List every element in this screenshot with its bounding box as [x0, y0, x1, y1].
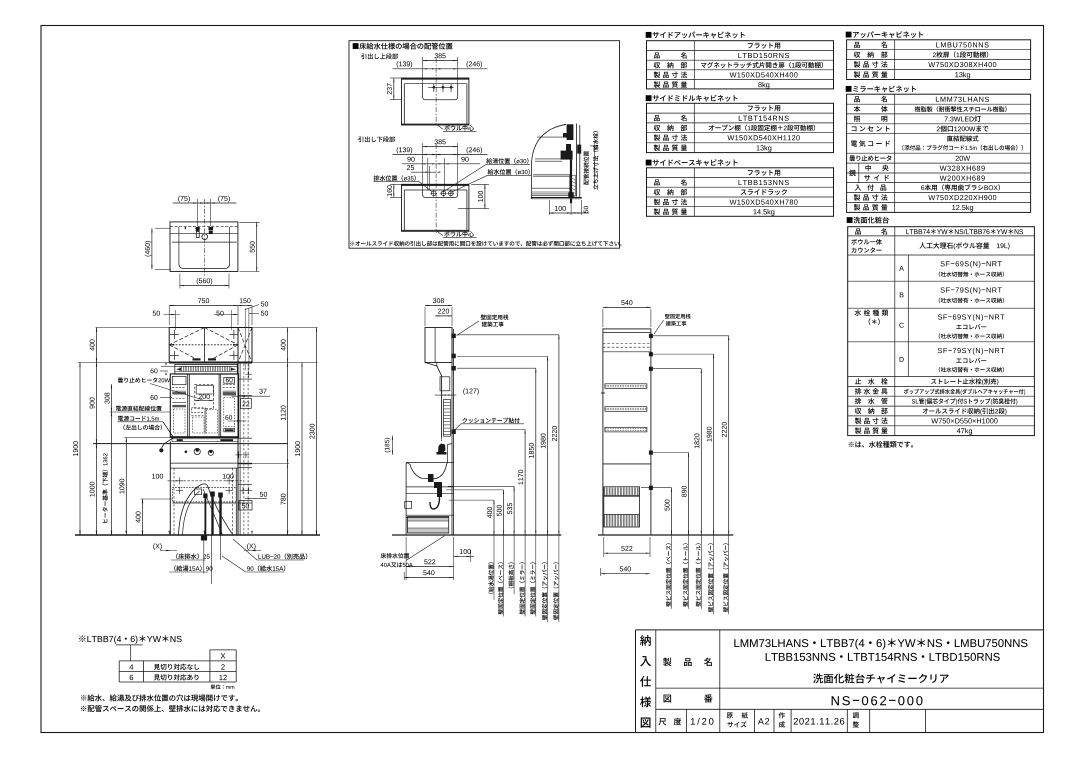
faucet A	[899, 266, 904, 271]
upper cabinet cross marks	[170, 333, 179, 335]
faucet black shape	[567, 124, 574, 140]
mirror left door shelves	[172, 376, 186, 384]
label hot 15A 90	[174, 565, 212, 571]
dim 385 lower	[422, 143, 424, 190]
dim 60 light band	[151, 368, 158, 373]
bowl outline	[423, 190, 458, 198]
vanity row: counter	[851, 239, 882, 245]
vanity table	[847, 217, 889, 224]
dim 400 left	[96, 328, 98, 363]
faucet sub column	[907, 255, 909, 377]
mirror cabinet table	[846, 86, 916, 93]
centerline upper	[435, 58, 437, 127]
mirror row: heater	[849, 155, 855, 161]
plan bowl outline	[179, 227, 230, 269]
dim 2300 right	[316, 328, 318, 536]
plan small tick	[184, 227, 186, 229]
faucet cross marks	[428, 86, 453, 88]
dim 22 boxed	[241, 399, 252, 409]
left extension lines	[96, 327, 170, 329]
row: flat type	[748, 105, 780, 111]
box bottom note	[350, 241, 621, 246]
upper cabinet shelf dashed	[169, 344, 238, 346]
upper cabinet door swing dashes	[169, 328, 204, 345]
label lower drawer	[358, 136, 395, 142]
side trap	[434, 482, 442, 488]
mirror center heater zone	[195, 385, 214, 409]
dim 60 right door	[225, 415, 232, 420]
mirror row: outlet	[852, 126, 857, 131]
plan centerline	[203, 199, 205, 276]
dim 50 right lower	[260, 492, 267, 497]
right view outline	[603, 329, 651, 535]
tower front below	[239, 363, 241, 536]
dashed line 100 dim row	[168, 480, 244, 482]
dim (139)/(246) upper	[393, 68, 488, 70]
box title	[353, 43, 453, 50]
leader to table	[130, 645, 132, 661]
mirror row: light	[854, 116, 860, 122]
row: product size	[654, 134, 660, 140]
side vertical dims	[493, 500, 495, 535]
plan dim (75)(75)	[196, 199, 198, 226]
underline 4-6	[116, 644, 143, 646]
product name line1	[734, 638, 1027, 649]
dim 1362 left	[111, 412, 113, 535]
side wall lines	[451, 328, 453, 536]
delivery spec label vertical	[640, 635, 651, 646]
drain leader lines	[203, 535, 205, 574]
cold water label	[488, 169, 530, 175]
floor piping spec box	[349, 41, 620, 249]
mini cabinet rect	[402, 184, 469, 231]
valve cluster black	[561, 151, 573, 160]
dim 37	[259, 389, 266, 394]
row: model name	[654, 115, 660, 121]
mirror bottom thick band	[170, 436, 238, 438]
dim 308 side	[424, 307, 426, 326]
vanity row: drain pipe	[855, 398, 861, 404]
plan view counter lines	[170, 233, 238, 235]
dim (127)	[435, 394, 457, 396]
label pipe connection	[583, 151, 588, 185]
vanity row: name	[855, 229, 861, 235]
right view wall brackets	[649, 334, 653, 338]
dim 25	[411, 171, 436, 173]
dim 750 150 50	[168, 306, 170, 326]
cushion tape label	[462, 418, 519, 423]
vanity row: mass	[855, 427, 861, 433]
cross marks inside cabinet	[176, 480, 183, 482]
pipe detail shelf lines	[537, 136, 567, 138]
mirror side profile	[425, 363, 442, 438]
dim 1900 right	[301, 363, 303, 536]
dim 50 mid	[216, 311, 223, 316]
faucet symbols front	[185, 451, 188, 454]
mirror doors dividers	[187, 374, 189, 438]
table: サイドベースキャビネット	[646, 159, 738, 166]
vanity row: stop valve	[855, 378, 861, 384]
right view horizontal lines	[603, 332, 651, 334]
boxed 50	[239, 501, 252, 511]
side tower top box	[238, 328, 252, 363]
vanity note	[849, 441, 913, 448]
mirror row: mirrors	[858, 163, 860, 183]
product name line3	[813, 673, 949, 683]
drain label	[374, 175, 416, 181]
centerline lower	[435, 144, 437, 233]
plan drain circle	[202, 234, 208, 240]
pipe position circles	[431, 191, 436, 196]
note water supply	[81, 694, 238, 701]
dim 50 pair right	[244, 308, 246, 370]
bowl outline	[423, 84, 458, 100]
row: storage	[654, 62, 660, 68]
dim (185)	[391, 436, 393, 455]
pipe detail drawer rails	[532, 187, 572, 189]
dim 308 left	[111, 384, 113, 412]
wall bracket marks side	[451, 334, 456, 339]
(X) arrows	[160, 550, 177, 552]
right view rotated labels	[666, 543, 671, 606]
title block frame	[635, 630, 637, 733]
bowl trap curves	[179, 484, 234, 535]
vanity row: size	[855, 418, 861, 424]
row: product mass	[654, 145, 660, 151]
inner counter line	[404, 83, 467, 85]
right view slide rack	[604, 487, 640, 527]
faucet B	[900, 292, 904, 297]
side backsplash	[447, 445, 449, 463]
dim 400 right	[287, 328, 289, 363]
side faucet black	[438, 444, 446, 454]
wall opening hatch	[577, 145, 581, 154]
upper cabinet box	[169, 328, 238, 363]
row: model name	[654, 179, 660, 185]
mirror right door boxed 60	[224, 377, 235, 383]
heater reference label	[102, 453, 108, 522]
inner counter line	[404, 189, 467, 191]
dim 50 pipe detail	[581, 200, 583, 215]
right view hatched shelves	[605, 384, 647, 389]
wall bracket lower	[451, 430, 456, 435]
side rotated labels below floor	[488, 562, 493, 594]
mini cabinet rect	[402, 78, 469, 125]
bowl center label upper	[436, 124, 443, 129]
vanity faucet type label	[855, 310, 889, 316]
dim 220 side	[435, 315, 452, 317]
label upper drawer	[361, 53, 398, 59]
small box overflow	[195, 489, 202, 495]
row: product mass	[654, 208, 660, 214]
table: サイドミドルキャビネット	[646, 95, 738, 102]
upper cabinet hinge marks	[193, 358, 201, 360]
mirror right door bottom bar	[224, 429, 235, 432]
right view dashed shelf bands	[603, 343, 651, 345]
riser dim line	[593, 146, 595, 186]
model option table	[210, 649, 236, 651]
light band	[175, 364, 238, 374]
product name line2	[766, 653, 1000, 661]
plan faucet left rect	[196, 227, 200, 231]
dim 540 side	[403, 572, 405, 580]
bottom row cells	[685, 709, 687, 732]
mirror row: body	[854, 106, 860, 112]
label riser height	[593, 131, 598, 190]
right extension lines	[252, 327, 318, 329]
dim 385 upper	[422, 57, 424, 84]
model number note	[79, 635, 182, 644]
side upper cabinet	[425, 328, 452, 363]
plan dim 550	[240, 221, 260, 223]
riser pipe	[570, 160, 572, 204]
row: product mass	[654, 81, 660, 87]
dim 100 lower right	[471, 183, 489, 185]
base cabinet inner dashed verticals	[173, 468, 175, 535]
power cable labels	[116, 406, 162, 411]
side floor line	[392, 534, 561, 536]
power cord symbol	[162, 422, 174, 448]
tower horizontal divisions	[238, 378, 252, 380]
right view bottom dims	[603, 537, 605, 557]
backsplash marks	[177, 439, 183, 441]
drawing number label	[664, 695, 672, 703]
trap pipes black	[204, 497, 206, 535]
faucet C	[899, 323, 903, 328]
base cabinet sides	[169, 442, 171, 536]
counter top line	[93, 443, 288, 445]
mirror cabinet box	[170, 374, 238, 438]
dim 1090 left	[125, 438, 127, 536]
label LUB-20	[259, 553, 308, 559]
hot water label	[486, 158, 528, 164]
side drawer with hatch	[408, 517, 449, 534]
dim 900 left	[96, 363, 98, 444]
pipe detail view - break arc	[531, 124, 566, 199]
dim 160	[390, 183, 401, 185]
floor drain label side	[381, 553, 410, 558]
vanity row: storage	[855, 408, 861, 414]
plan faucet right rect	[209, 227, 214, 230]
counter apron lines	[170, 462, 238, 464]
upper cabinet table	[846, 31, 923, 38]
right view vertical dims	[671, 488, 673, 535]
label cold 15A 90	[247, 565, 285, 571]
note piping space	[81, 705, 260, 712]
dim 100 pipe detail	[548, 200, 550, 215]
mirror row: accessories	[855, 185, 861, 191]
dim 200	[195, 399, 214, 401]
heater label and leader	[118, 377, 170, 382]
faucet D	[900, 357, 904, 362]
upper cabinet bottom thick line	[169, 362, 252, 364]
row: storage	[654, 189, 660, 195]
plan dashed counter line	[170, 225, 238, 227]
side view bottom dims	[405, 537, 407, 580]
plan dim (560)	[179, 274, 181, 289]
dim 90-90	[402, 163, 480, 165]
(X) labels	[153, 543, 161, 550]
mirror center lower boxes	[191, 408, 205, 413]
dim 400 bottom left	[142, 499, 144, 535]
pipe detail wall lines	[575, 124, 577, 197]
right view floor line	[598, 534, 733, 536]
dim 522 side	[406, 566, 454, 568]
dim 1900 left	[79, 363, 81, 536]
dim 1120 right	[287, 363, 289, 464]
drawing number value	[832, 696, 923, 705]
mirror row: size	[854, 194, 860, 200]
mirror row: name	[854, 96, 860, 102]
dim 540 top	[602, 309, 604, 327]
row: storage	[654, 125, 660, 131]
dim 100 100 front	[152, 474, 163, 479]
floor line	[75, 534, 320, 536]
bowl center label lower	[436, 231, 443, 236]
label floor drain 25	[176, 553, 209, 559]
dim 100 side	[460, 549, 471, 554]
wall rail label side	[481, 315, 509, 320]
side dim ticks	[449, 499, 494, 501]
pipe detail floor	[531, 197, 581, 199]
tower cross marks	[245, 373, 252, 375]
mirror section ladder hatch	[444, 400, 451, 437]
floor dim arrows down	[79, 531, 80, 535]
row: flat type	[748, 43, 780, 49]
dim 780 right	[287, 464, 289, 536]
dim (139)/(246) lower	[393, 154, 488, 156]
dim 237 upper	[390, 77, 401, 79]
wall rail label right view	[665, 314, 691, 319]
plan view outer rect	[170, 222, 238, 272]
dim 60 second	[151, 395, 158, 400]
mirror light housing side	[440, 377, 450, 391]
side outlet box	[405, 501, 412, 508]
dim 1000 left	[96, 444, 98, 535]
row: product size	[654, 199, 660, 205]
plan dim (460)	[155, 227, 171, 229]
mirror row: cord	[851, 141, 857, 147]
product name label	[663, 658, 671, 666]
mirror row: mass	[854, 204, 860, 210]
right view dim ticks	[641, 487, 672, 489]
dim 50 left	[153, 311, 160, 316]
mirror right door shelves	[223, 384, 236, 386]
row: flat type	[748, 170, 780, 176]
riser hatch band	[570, 175, 576, 195]
right view left edge tick	[601, 392, 605, 394]
table: サイドアッパーキャビネット	[646, 32, 745, 39]
side base cabinet	[405, 487, 407, 535]
side counter profile	[406, 463, 447, 487]
row: product size	[654, 72, 660, 78]
vanity row: drain fitting	[855, 388, 861, 394]
drawer band dashed	[172, 488, 236, 502]
row: model name	[654, 52, 660, 58]
